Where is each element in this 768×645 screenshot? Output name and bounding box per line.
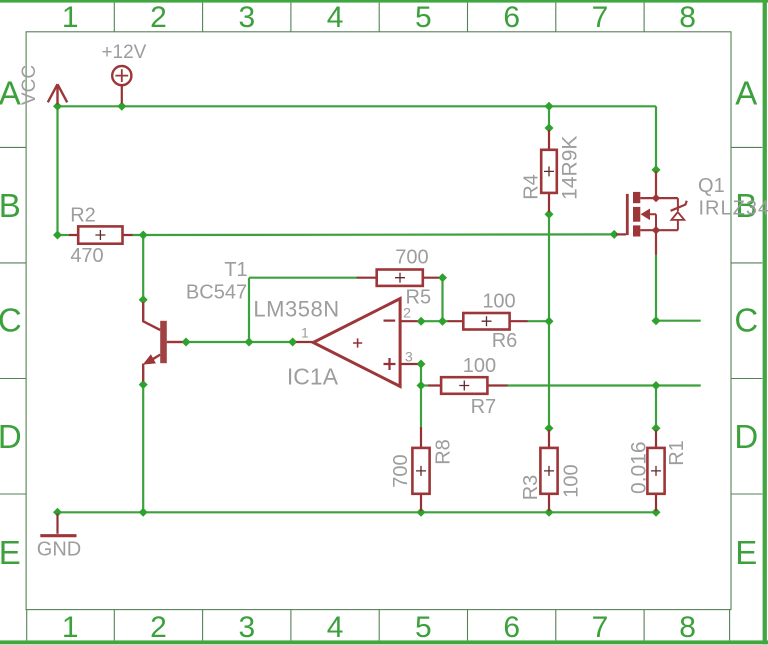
junction feedback / base wire — [245, 338, 254, 347]
frame outer border top — [0, 0, 768, 3]
junction GND / ground rail — [53, 508, 62, 517]
wire T1 emitter vertical to ground rail — [142, 385, 144, 513]
junction T1 emitter / ground rail — [139, 508, 148, 517]
wire R3 bottom handled via pin; vertical op-amp pin3 to R8 — [420, 364, 422, 428]
wire source stub to right — [656, 320, 701, 322]
wire R2 left stub to junction — [58, 234, 70, 236]
junction Q1 gate pin — [610, 230, 619, 239]
junction T1 base pin — [182, 338, 191, 347]
op-amp IC1A — [296, 299, 418, 387]
svg-text:5: 5 — [415, 1, 432, 34]
frame column numbers top — [62, 1, 696, 34]
junction R1 top pin — [652, 424, 661, 433]
svg-text:4: 4 — [327, 611, 344, 644]
junction R4 branch on top rail — [545, 102, 554, 111]
svg-text:Q1: Q1 — [698, 175, 725, 197]
junction R5 right pin — [438, 273, 447, 282]
svg-text:R5: R5 — [406, 286, 432, 308]
svg-text:8: 8 — [679, 1, 696, 34]
transistor Q1 IRLZ34 MOSFET — [616, 171, 687, 255]
wire R5 row horizontal — [249, 277, 357, 279]
svg-text:D: D — [0, 418, 22, 455]
resistor R4 vertical — [541, 130, 557, 212]
resistor R6 — [448, 313, 528, 330]
transistor T1 BC547 — [143, 302, 183, 382]
svg-text:1: 1 — [62, 1, 79, 34]
svg-text:1: 1 — [301, 325, 309, 341]
svg-text:5: 5 — [415, 611, 432, 644]
ground GND symbol — [40, 514, 76, 536]
junction VCC arrow / top rail — [53, 102, 62, 111]
svg-text:R2: R2 — [70, 205, 96, 227]
frame row letters left — [0, 74, 22, 571]
svg-text:470: 470 — [70, 245, 103, 267]
junction sense node / R7 wire — [652, 381, 661, 390]
junction op-amp output pin — [288, 338, 297, 347]
svg-text:3: 3 — [405, 349, 413, 365]
svg-text:3: 3 — [238, 611, 255, 644]
svg-text:B: B — [0, 187, 21, 224]
svg-text:7: 7 — [592, 1, 609, 34]
junction R8 bottom / ground rail — [417, 508, 426, 517]
junction R7 branch off pin3 line — [417, 381, 426, 390]
resistor R1 vertical — [647, 430, 664, 511]
svg-text:2: 2 — [150, 1, 167, 34]
junction Q1 drain pin — [652, 165, 661, 174]
svg-text:100: 100 — [463, 355, 496, 377]
junction op-amp pin3 — [417, 360, 426, 369]
frame top column dividers — [114, 3, 644, 32]
junction Q1 source corner — [652, 316, 661, 325]
svg-text:14R9K: 14R9K — [559, 136, 582, 200]
junction +12V / top rail — [117, 102, 126, 111]
svg-text:T1: T1 — [224, 259, 247, 281]
svg-text:IC1A: IC1A — [287, 364, 339, 390]
svg-text:A: A — [0, 74, 21, 111]
svg-text:IRLZ34: IRLZ34 — [699, 197, 768, 219]
svg-text:C: C — [0, 302, 22, 339]
junction R3 bottom / ground rail — [545, 508, 554, 517]
junction R4 bottom pin — [545, 210, 554, 219]
svg-text:7: 7 — [592, 611, 609, 644]
junction R3 top pin — [545, 424, 554, 433]
svg-text:6: 6 — [503, 611, 520, 644]
junction R5 drop / pin2 wire — [438, 317, 447, 326]
svg-text:GND: GND — [37, 539, 81, 561]
wire sense node vertical to R1 — [655, 386, 657, 429]
svg-text:R8: R8 — [433, 439, 455, 465]
svg-text:E: E — [735, 534, 757, 571]
frame outer border right — [763, 0, 767, 644]
svg-text:VCC: VCC — [19, 65, 40, 105]
svg-text:A: A — [735, 74, 757, 111]
wire ground rail horizontal — [58, 511, 657, 513]
junction R2 right / T1 collector branch — [139, 231, 148, 240]
frame right row separators — [731, 147, 762, 494]
wire R5 right to vertical drop — [441, 278, 443, 322]
wire feedback vertical R5 to base node — [248, 278, 250, 342]
svg-text:0.016: 0.016 — [627, 441, 650, 494]
frame bottom column dividers — [27, 610, 730, 641]
wire op-amp pin2 to R6 — [421, 320, 447, 322]
svg-text:100: 100 — [561, 464, 583, 497]
resistor R2 — [69, 226, 133, 243]
svg-text:1: 1 — [62, 611, 79, 644]
svg-text:R7: R7 — [471, 396, 497, 418]
wire VCC top rail horizontal — [58, 105, 657, 107]
svg-text:8: 8 — [679, 611, 696, 644]
wire R7 left branch — [421, 384, 428, 386]
svg-text:700: 700 — [395, 246, 428, 268]
svg-text:LM358N: LM358N — [253, 297, 339, 322]
svg-text:6: 6 — [503, 1, 520, 34]
wire R4 top stub — [548, 106, 550, 128]
resistor R8 vertical — [412, 427, 429, 511]
wire T1 collector vertical — [142, 235, 144, 300]
svg-text:BC547: BC547 — [186, 282, 247, 304]
svg-text:4: 4 — [327, 1, 344, 34]
junction T1 collector pin — [139, 295, 148, 304]
junction R1 bottom / ground rail end — [652, 508, 661, 517]
svg-text:R1: R1 — [666, 440, 688, 466]
wire left vertical VCC to R2 — [56, 106, 58, 235]
junction R2 left / left vertical — [53, 231, 62, 240]
svg-text:C: C — [734, 302, 758, 339]
svg-text:3: 3 — [238, 1, 255, 34]
junction R6 right / node — [545, 317, 554, 326]
svg-text:D: D — [734, 418, 758, 455]
wire Q1 source vertical down — [655, 254, 657, 321]
svg-text:R3: R3 — [520, 475, 542, 501]
wire R7 right long horizontal to stub end — [507, 384, 701, 386]
wire R2 output to Q1 gate long horizontal — [132, 233, 614, 236]
frame left row separators — [0, 147, 26, 494]
junction R4 top pin — [545, 124, 554, 133]
supply +12V — [112, 66, 131, 104]
wire top rail corner down to Q1 drain — [655, 106, 657, 170]
wire T1 base to op-amp output — [186, 341, 293, 343]
resistor R7 — [428, 377, 508, 394]
junction op-amp pin2 — [417, 317, 426, 326]
frame row letters right — [734, 74, 758, 571]
svg-text:+12V: +12V — [101, 42, 146, 63]
svg-text:100: 100 — [482, 291, 515, 313]
frame column numbers bottom — [62, 611, 696, 644]
junction T1 emitter pin — [139, 380, 148, 389]
wire node R4-R6-R3 vertical — [548, 214, 550, 428]
svg-text:R4: R4 — [520, 174, 542, 200]
frame outer border bottom — [0, 640, 768, 644]
svg-text:700: 700 — [390, 454, 412, 487]
svg-text:R6: R6 — [492, 330, 518, 352]
svg-text:E: E — [0, 534, 21, 571]
wire R6 right to node at x549 — [527, 320, 549, 322]
resistor R5 — [357, 270, 440, 286]
svg-text:2: 2 — [150, 611, 167, 644]
resistor R3 vertical — [540, 430, 557, 511]
supply VCC arrow — [48, 84, 67, 104]
